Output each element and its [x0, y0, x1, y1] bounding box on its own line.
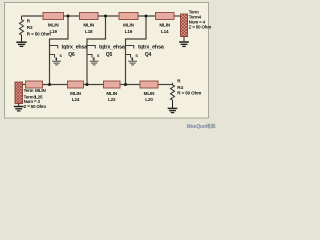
svg-text:5: 5: [131, 57, 133, 61]
wire L14 to Term4: [174, 15, 181, 17]
svg-text:L20: L20: [145, 97, 153, 102]
transistor Q6: [50, 45, 89, 61]
svg-text:MLIN: MLIN: [35, 88, 46, 93]
port Term3: [15, 82, 46, 109]
transistor Q4: [126, 45, 165, 61]
ground of Term3: [14, 104, 24, 111]
wire L20 to R4: [158, 84, 173, 86]
microstrip MLIN L18: [80, 13, 99, 34]
svg-text:MLIN: MLIN: [70, 91, 81, 96]
svg-text:Q6: Q6: [68, 52, 75, 58]
svg-text:WeeQoo维库: WeeQoo维库: [187, 123, 216, 130]
resistor R4: [171, 79, 202, 101]
svg-text:R = 50 Ohm: R = 50 Ohm: [177, 90, 201, 95]
node dot top 1: [67, 15, 70, 18]
node dot top 3: [145, 15, 148, 18]
svg-text:MLIN: MLIN: [159, 23, 170, 28]
ground of Term4: [179, 37, 189, 47]
ground of R4: [168, 100, 178, 112]
svg-text:MLIN: MLIN: [144, 91, 155, 96]
svg-text:5: 5: [55, 57, 57, 61]
wire shunt branch Q4: [126, 16, 147, 85]
outer background: [0, 0, 216, 131]
microstrip MLIN L20: [140, 81, 158, 102]
svg-text:MLIN: MLIN: [106, 91, 117, 96]
microstrip MLIN L22: [104, 81, 121, 102]
svg-text:Z = 50 Ohm: Z = 50 Ohm: [189, 24, 212, 29]
node dot bottom 1: [48, 83, 51, 86]
wire L18 to L16: [98, 15, 119, 17]
schematic sheet: [5, 3, 209, 119]
wire bottom bus Term3 to L25: [23, 84, 26, 86]
ground of R3: [16, 36, 26, 47]
svg-text:5: 5: [93, 57, 95, 61]
wire shunt branch Q6: [50, 16, 69, 85]
transistor Q5: [87, 45, 126, 61]
node dot bottom 2: [86, 83, 89, 86]
node dot top 2: [104, 15, 107, 18]
svg-text:tqtrx_ehsa: tqtrx_ehsa: [138, 45, 165, 51]
port Term4: [181, 9, 212, 36]
svg-text:Q5: Q5: [106, 52, 113, 58]
ground of Q6: [52, 61, 61, 65]
node dot bottom 3: [124, 83, 127, 86]
wire L16 to L14: [138, 15, 156, 17]
svg-text:MLIN: MLIN: [83, 23, 94, 28]
wire L19 to L18: [64, 15, 80, 17]
svg-text:Z = 50 Ohm: Z = 50 Ohm: [24, 104, 47, 109]
resistor R3: [20, 16, 51, 36]
svg-text:R = 50 Ohm: R = 50 Ohm: [27, 31, 51, 36]
svg-text:L16: L16: [125, 29, 133, 34]
svg-text:L24: L24: [72, 97, 80, 102]
svg-text:MLIN: MLIN: [123, 23, 134, 28]
wire shunt branch Q5: [87, 16, 106, 85]
microstrip MLIN L25: [26, 81, 47, 99]
svg-text:MLIN: MLIN: [48, 23, 59, 28]
microstrip MLIN L14: [156, 13, 175, 34]
wire L24 to L22: [84, 84, 104, 86]
svg-text:R4: R4: [177, 85, 183, 90]
wire L25 to L24: [43, 84, 68, 86]
ground of Q4: [128, 61, 137, 65]
microstrip MLIN L24: [68, 81, 84, 102]
microstrip MLIN L19: [43, 13, 64, 34]
svg-text:tqtrx_ehsa: tqtrx_ehsa: [99, 45, 126, 51]
microstrip MLIN L16: [119, 13, 138, 34]
ground of Q5: [90, 61, 99, 65]
svg-text:tqtrx_ehsa: tqtrx_ehsa: [62, 45, 89, 51]
svg-text:L22: L22: [108, 97, 116, 102]
svg-text:L18: L18: [85, 29, 93, 34]
wire top bus left: [22, 15, 44, 17]
svg-text:Term: Term: [24, 88, 34, 93]
svg-text:Q4: Q4: [145, 52, 152, 58]
wire L22 to L20: [120, 84, 140, 86]
svg-text:R3: R3: [27, 25, 33, 30]
svg-text:L14: L14: [161, 29, 169, 34]
